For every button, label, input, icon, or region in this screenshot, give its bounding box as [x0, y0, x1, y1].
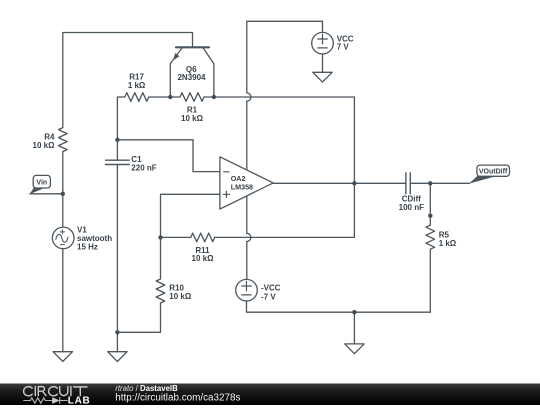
resistor R1 — [180, 93, 204, 102]
ground (C1 branch) — [108, 352, 127, 362]
wire feedback: R1 right across and down to output node — [204, 97, 354, 183]
voltage source -VCC — [236, 279, 258, 301]
resistor R11 — [191, 233, 215, 242]
svg-text:-VCC: -VCC — [261, 283, 281, 292]
wire R4 bottom to V1 top — [62, 152, 64, 228]
wire VCC to ground — [322, 54, 324, 72]
resistor R10 — [117, 237, 164, 332]
svg-text:Vin: Vin — [36, 180, 47, 187]
wire riser to R17 from C1 node — [117, 97, 124, 140]
capacitor CDiff — [406, 173, 410, 194]
svg-text:10 kΩ: 10 kΩ — [192, 254, 215, 263]
wire op-amp output to CDiff — [273, 182, 406, 184]
logo CIRCUIT (drawn letterforms) — [24, 387, 87, 396]
wire inverting input — [117, 140, 219, 172]
resistor R5 — [426, 183, 435, 312]
svg-text:-7 V: -7 V — [261, 293, 276, 302]
wire node to R11 — [161, 236, 191, 238]
wire top rail: R4 top up, across, down to Q6 base — [63, 33, 193, 128]
wire VCC vertical rail with hops — [247, 21, 251, 279]
svg-text:LAB: LAB — [68, 395, 91, 405]
op-amp OA2 — [220, 157, 273, 209]
svg-text:1 kΩ: 1 kΩ — [128, 81, 146, 90]
ground (rail) — [345, 344, 364, 354]
svg-text:http://circuitlab.com/ca3278s: http://circuitlab.com/ca3278s — [115, 393, 240, 404]
wire V1 bottom to ground — [62, 249, 64, 352]
footer bar — [0, 384, 540, 406]
wire -VCC bottom rail — [247, 301, 431, 312]
capacitor C1 — [106, 140, 130, 332]
svg-text:220 nF: 220 nF — [131, 163, 156, 172]
wire CDiff to VOutDiff flag — [410, 182, 469, 184]
wire C1 bottom node to ground — [116, 332, 118, 351]
transistor Q6 — [170, 47, 214, 97]
svg-text:10 kΩ: 10 kΩ — [169, 292, 192, 301]
svg-text:10 kΩ: 10 kΩ — [181, 114, 204, 123]
wire R17 to R1 — [149, 96, 180, 98]
svg-text:15 Hz: 15 Hz — [77, 242, 98, 251]
svg-text:1 kΩ: 1 kΩ — [439, 239, 457, 248]
svg-text:7 V: 7 V — [337, 42, 350, 51]
ground (V1 branch) — [53, 352, 72, 362]
flag Vin — [30, 175, 51, 194]
wire R11 right up to output node — [215, 183, 355, 237]
svg-text:LM358: LM358 — [231, 183, 253, 192]
voltage source V1 — [52, 227, 74, 249]
resistor R4 — [59, 128, 68, 152]
wire non-inverting input — [161, 194, 220, 237]
wire Vin flag leader — [30, 193, 63, 195]
svg-text:2N3904: 2N3904 — [177, 73, 206, 82]
svg-text:OA2: OA2 — [231, 174, 246, 183]
wire rail to ground — [353, 312, 355, 344]
wire VCC top branch — [247, 21, 323, 32]
svg-text:10 kΩ: 10 kΩ — [33, 141, 56, 150]
ground (VCC branch) — [313, 72, 332, 82]
voltage source VCC — [312, 32, 334, 54]
flag VOutDiff — [469, 165, 510, 184]
node junction dots — [61, 95, 433, 335]
svg-text:100 nF: 100 nF — [399, 203, 424, 212]
svg-text:VOutDiff: VOutDiff — [479, 169, 508, 176]
logo zigzag + diode — [23, 397, 67, 404]
resistor R17 — [125, 93, 149, 102]
svg-text:rtrato / DastavelB: rtrato / DastavelB — [115, 384, 178, 393]
